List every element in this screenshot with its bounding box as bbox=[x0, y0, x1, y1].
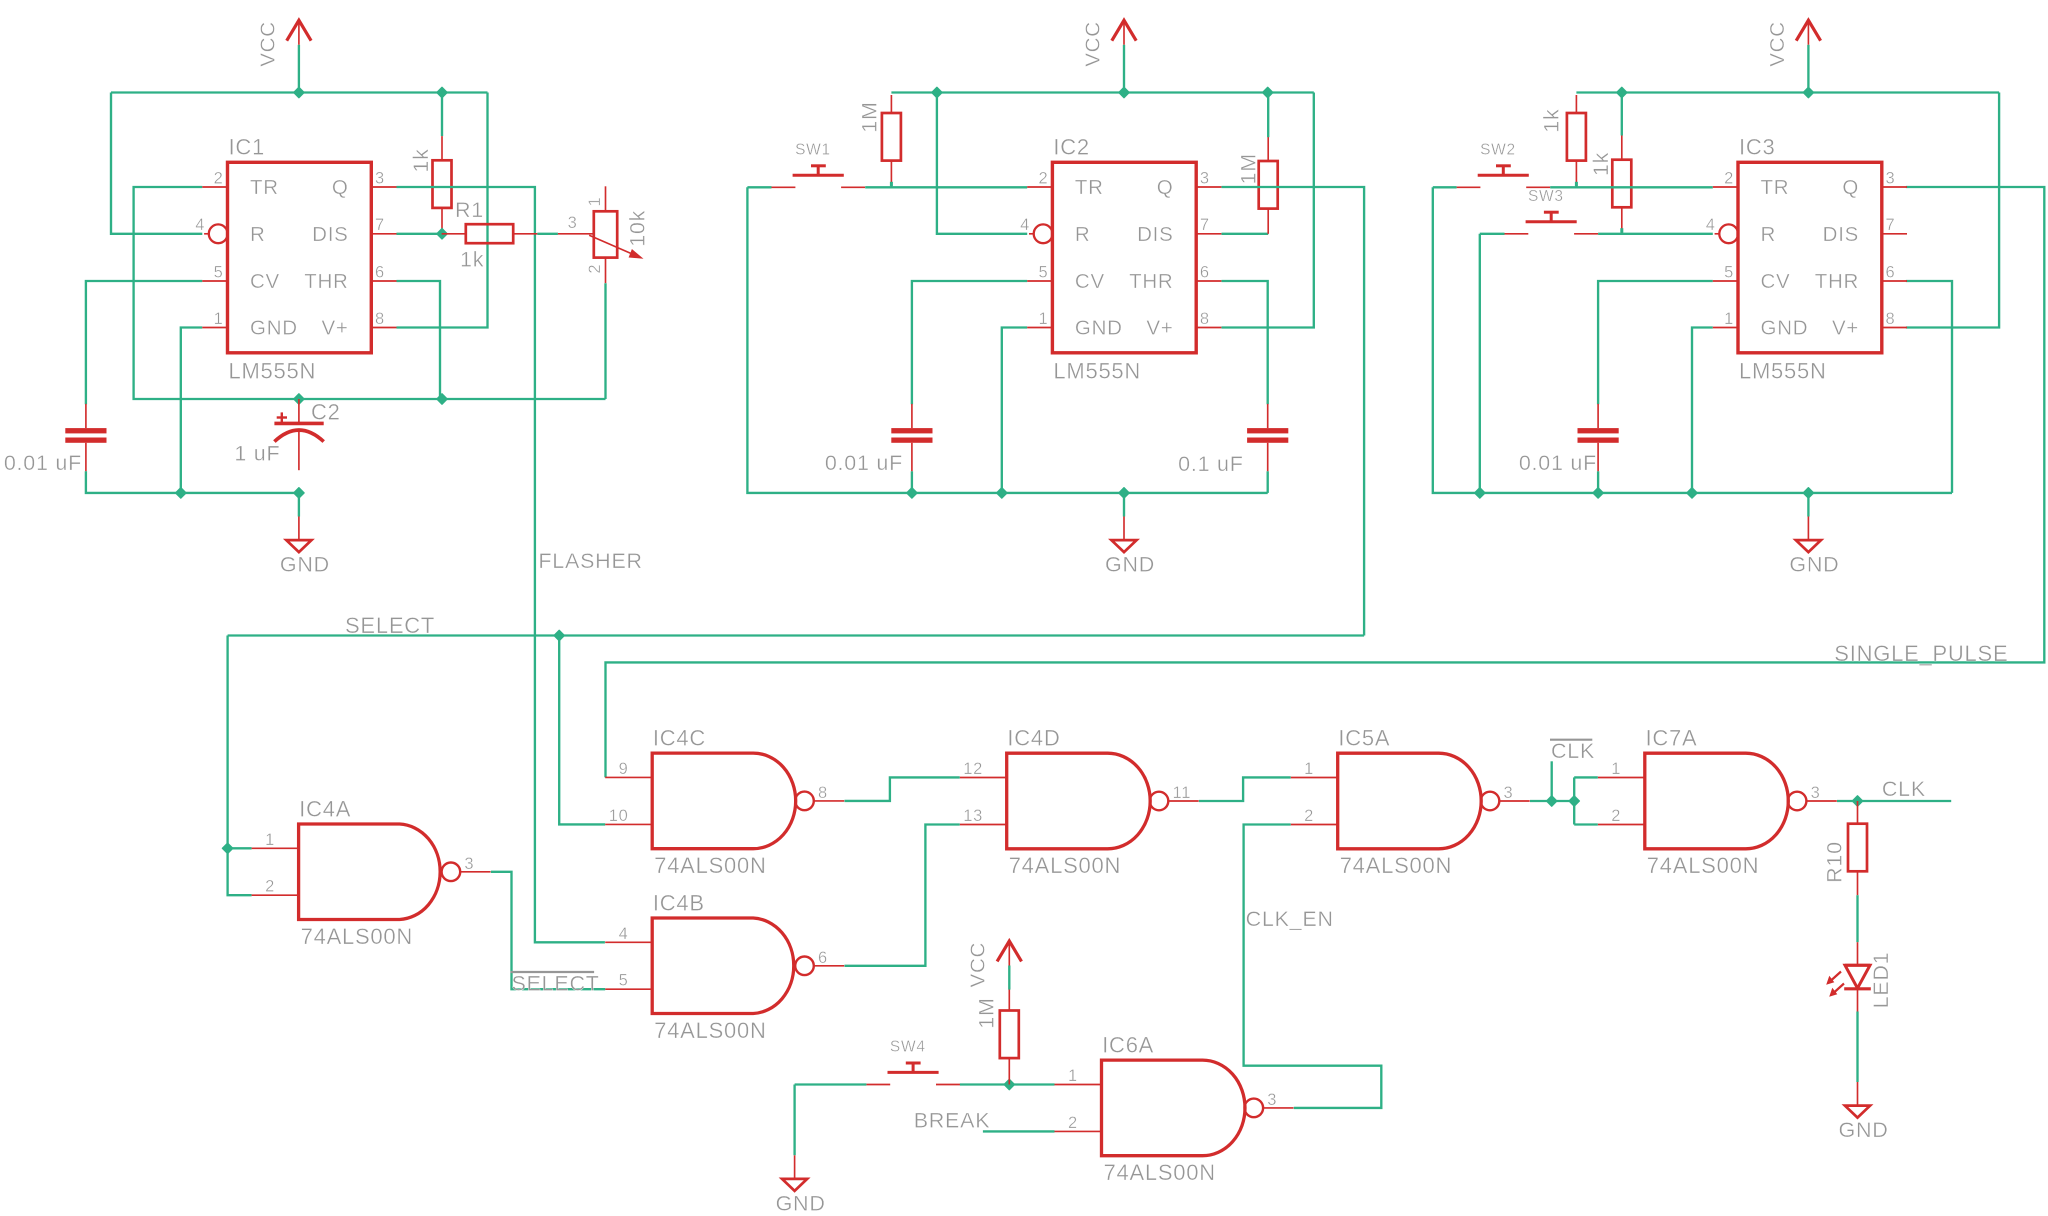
svg-text:R10: R10 bbox=[1822, 841, 1846, 883]
svg-text:4: 4 bbox=[619, 925, 629, 943]
svg-text:7: 7 bbox=[375, 216, 385, 234]
svg-text:IC1: IC1 bbox=[229, 134, 266, 159]
svg-text:0.01 uF: 0.01 uF bbox=[4, 451, 82, 475]
svg-text:IC4B: IC4B bbox=[653, 891, 705, 916]
svg-text:7: 7 bbox=[1886, 216, 1896, 234]
svg-text:BREAK: BREAK bbox=[914, 1108, 991, 1132]
svg-text:IC7A: IC7A bbox=[1646, 726, 1698, 751]
svg-text:GND: GND bbox=[1075, 317, 1123, 340]
svg-text:C2: C2 bbox=[311, 400, 341, 425]
svg-text:2: 2 bbox=[265, 878, 275, 896]
svg-text:74ALS00N: 74ALS00N bbox=[1104, 1160, 1216, 1185]
svg-text:SINGLE_PULSE: SINGLE_PULSE bbox=[1834, 641, 2008, 666]
svg-text:1: 1 bbox=[1611, 760, 1621, 778]
svg-text:1: 1 bbox=[586, 197, 604, 207]
svg-text:R: R bbox=[250, 223, 266, 246]
svg-text:5: 5 bbox=[1038, 264, 1048, 282]
svg-text:2: 2 bbox=[1068, 1114, 1078, 1132]
svg-text:9: 9 bbox=[619, 760, 629, 778]
svg-text:TR: TR bbox=[1075, 176, 1104, 199]
svg-text:5: 5 bbox=[1724, 264, 1734, 282]
svg-text:CV: CV bbox=[250, 270, 280, 293]
svg-text:IC3: IC3 bbox=[1739, 134, 1776, 159]
svg-text:SW4: SW4 bbox=[890, 1039, 926, 1056]
svg-text:IC4A: IC4A bbox=[299, 797, 351, 822]
svg-text:R1: R1 bbox=[455, 198, 484, 222]
svg-text:3: 3 bbox=[1200, 170, 1210, 188]
svg-text:2: 2 bbox=[214, 170, 224, 188]
svg-text:2: 2 bbox=[586, 264, 604, 274]
svg-text:1M: 1M bbox=[857, 101, 881, 132]
svg-text:THR: THR bbox=[1815, 270, 1859, 293]
svg-text:1: 1 bbox=[1304, 760, 1314, 778]
svg-text:Q: Q bbox=[1842, 176, 1859, 199]
svg-text:GND: GND bbox=[280, 553, 330, 577]
svg-text:GND: GND bbox=[250, 317, 298, 340]
svg-text:TR: TR bbox=[1761, 176, 1790, 199]
svg-text:Q: Q bbox=[1157, 176, 1174, 199]
svg-text:1k: 1k bbox=[460, 248, 484, 272]
svg-text:CV: CV bbox=[1761, 270, 1791, 293]
svg-text:VCC: VCC bbox=[967, 942, 990, 988]
svg-text:CLK: CLK bbox=[1882, 777, 1926, 801]
svg-text:IC4D: IC4D bbox=[1007, 726, 1060, 751]
svg-text:74ALS00N: 74ALS00N bbox=[1009, 853, 1121, 878]
svg-text:7: 7 bbox=[1200, 216, 1210, 234]
svg-text:74ALS00N: 74ALS00N bbox=[301, 924, 413, 949]
svg-text:THR: THR bbox=[304, 270, 348, 293]
svg-text:8: 8 bbox=[1200, 310, 1210, 328]
svg-text:VCC: VCC bbox=[256, 21, 279, 67]
svg-text:8: 8 bbox=[1886, 310, 1896, 328]
svg-text:SW1: SW1 bbox=[795, 141, 831, 158]
svg-text:0.01 uF: 0.01 uF bbox=[1519, 451, 1597, 475]
svg-text:V+: V+ bbox=[1832, 317, 1859, 340]
svg-text:2: 2 bbox=[1304, 807, 1314, 825]
svg-text:3: 3 bbox=[1504, 784, 1514, 802]
svg-text:FLASHER: FLASHER bbox=[538, 549, 642, 573]
svg-text:DIS: DIS bbox=[312, 223, 348, 246]
svg-text:GND: GND bbox=[1789, 553, 1839, 577]
svg-text:SW3: SW3 bbox=[1528, 188, 1564, 205]
svg-text:4: 4 bbox=[1706, 216, 1716, 234]
svg-text:THR: THR bbox=[1129, 270, 1173, 293]
svg-text:6: 6 bbox=[818, 949, 828, 967]
svg-text:2: 2 bbox=[1038, 170, 1048, 188]
svg-text:4: 4 bbox=[195, 216, 205, 234]
svg-text:CLK_EN: CLK_EN bbox=[1246, 907, 1334, 931]
svg-text:5: 5 bbox=[619, 972, 629, 990]
svg-text:DIS: DIS bbox=[1137, 223, 1173, 246]
svg-text:SELECT: SELECT bbox=[512, 972, 600, 996]
svg-text:0.01 uF: 0.01 uF bbox=[825, 451, 903, 475]
svg-text:3: 3 bbox=[568, 214, 578, 232]
svg-text:8: 8 bbox=[818, 784, 828, 802]
svg-text:4: 4 bbox=[1020, 216, 1030, 234]
svg-text:12: 12 bbox=[963, 760, 983, 778]
svg-text:1: 1 bbox=[265, 831, 275, 849]
svg-text:R: R bbox=[1761, 223, 1777, 246]
svg-text:74ALS00N: 74ALS00N bbox=[1647, 853, 1759, 878]
svg-text:6: 6 bbox=[375, 264, 385, 282]
svg-text:3: 3 bbox=[375, 170, 385, 188]
svg-text:1 uF: 1 uF bbox=[234, 442, 280, 466]
svg-text:IC2: IC2 bbox=[1053, 134, 1090, 159]
svg-text:8: 8 bbox=[375, 310, 385, 328]
svg-text:3: 3 bbox=[1811, 784, 1821, 802]
svg-text:VCC: VCC bbox=[1081, 21, 1104, 67]
svg-text:10: 10 bbox=[609, 807, 629, 825]
svg-text:CLK: CLK bbox=[1551, 739, 1595, 763]
svg-text:GND: GND bbox=[776, 1191, 826, 1215]
svg-text:IC6A: IC6A bbox=[1102, 1033, 1154, 1058]
svg-text:1k: 1k bbox=[409, 148, 433, 172]
svg-text:74ALS00N: 74ALS00N bbox=[654, 1018, 766, 1043]
svg-text:GND: GND bbox=[1838, 1118, 1888, 1142]
svg-text:LED1: LED1 bbox=[1869, 952, 1893, 1009]
svg-text:1: 1 bbox=[1038, 310, 1048, 328]
svg-text:3: 3 bbox=[464, 855, 474, 873]
svg-text:IC4C: IC4C bbox=[653, 726, 706, 751]
svg-text:1: 1 bbox=[1724, 310, 1734, 328]
svg-text:1: 1 bbox=[1068, 1067, 1078, 1085]
svg-text:5: 5 bbox=[214, 264, 224, 282]
svg-text:6: 6 bbox=[1200, 264, 1210, 282]
svg-text:74ALS00N: 74ALS00N bbox=[1340, 853, 1452, 878]
svg-text:1: 1 bbox=[214, 310, 224, 328]
svg-text:1k: 1k bbox=[1589, 152, 1613, 176]
svg-text:SELECT: SELECT bbox=[345, 613, 435, 638]
svg-text:1k: 1k bbox=[1540, 108, 1564, 132]
svg-text:10k: 10k bbox=[626, 210, 650, 247]
svg-text:3: 3 bbox=[1267, 1091, 1277, 1109]
svg-text:6: 6 bbox=[1886, 264, 1896, 282]
svg-text:LM555N: LM555N bbox=[1739, 358, 1827, 383]
svg-text:1M: 1M bbox=[1237, 153, 1261, 184]
svg-text:1M: 1M bbox=[974, 997, 998, 1028]
svg-text:2: 2 bbox=[1724, 170, 1734, 188]
svg-text:VCC: VCC bbox=[1766, 21, 1789, 67]
svg-text:Q: Q bbox=[332, 176, 349, 199]
svg-text:13: 13 bbox=[963, 807, 983, 825]
svg-text:GND: GND bbox=[1761, 317, 1809, 340]
svg-text:LM555N: LM555N bbox=[1053, 358, 1141, 383]
svg-text:V+: V+ bbox=[1146, 317, 1173, 340]
svg-text:CV: CV bbox=[1075, 270, 1105, 293]
svg-text:LM555N: LM555N bbox=[229, 358, 317, 383]
svg-text:3: 3 bbox=[1886, 170, 1896, 188]
svg-text:R: R bbox=[1075, 223, 1091, 246]
svg-text:DIS: DIS bbox=[1823, 223, 1859, 246]
svg-text:2: 2 bbox=[1611, 807, 1621, 825]
svg-text:IC5A: IC5A bbox=[1338, 726, 1390, 751]
svg-text:V+: V+ bbox=[321, 317, 348, 340]
svg-text:GND: GND bbox=[1105, 553, 1155, 577]
svg-text:11: 11 bbox=[1173, 784, 1192, 802]
svg-text:TR: TR bbox=[250, 176, 279, 199]
svg-text:74ALS00N: 74ALS00N bbox=[654, 853, 766, 878]
svg-text:SW2: SW2 bbox=[1480, 141, 1516, 158]
svg-text:0.1 uF: 0.1 uF bbox=[1178, 452, 1243, 476]
